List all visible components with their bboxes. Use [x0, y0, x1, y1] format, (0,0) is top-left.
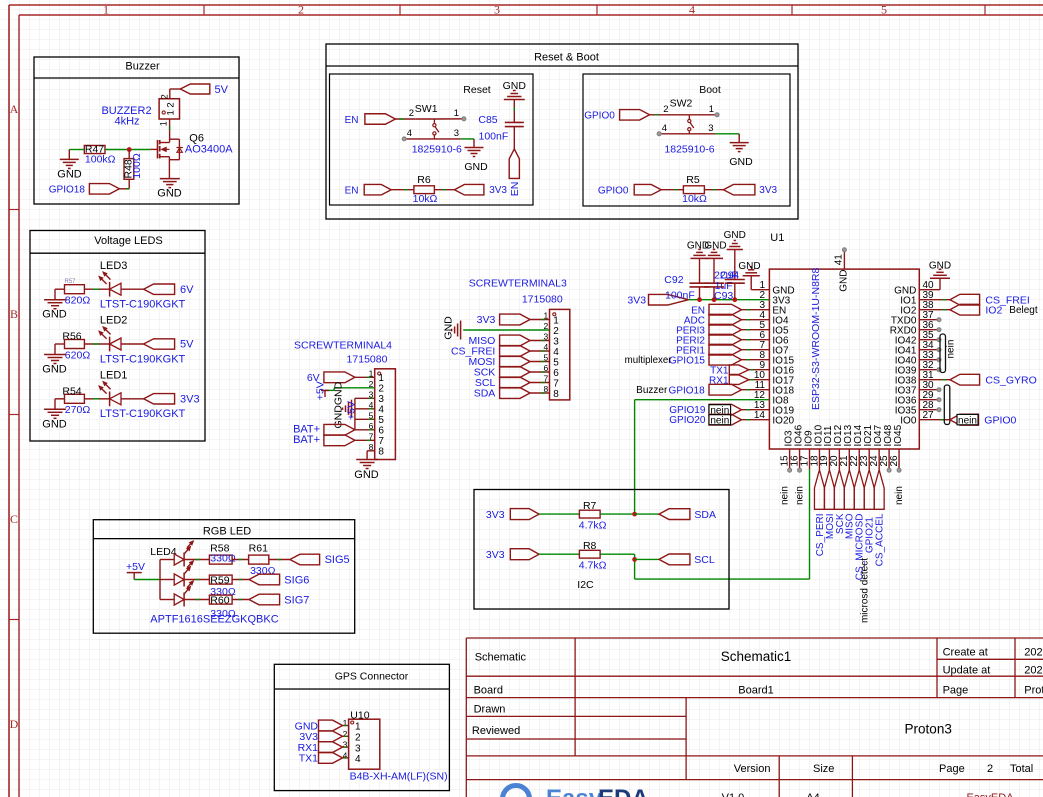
junction at C93: [712, 297, 717, 302]
buzzer BUZZER2: [101, 94, 179, 127]
connector SCREWTERMINAL3 1715080: [469, 278, 570, 400]
net flag PERI2 at U1 pin6: [676, 334, 741, 346]
svg-text:R54: R54: [62, 385, 81, 397]
svg-text:4.7kΩ: 4.7kΩ: [579, 560, 607, 572]
switch SW2 1825910-6: [661, 97, 717, 155]
svg-text:GND: GND: [704, 241, 726, 252]
svg-text:microsd detect: microsd detect: [860, 558, 871, 623]
svg-text:LTST-C190KGKT: LTST-C190KGKT: [100, 408, 186, 420]
svg-text:2: 2: [298, 3, 304, 17]
wire pin5: [530, 361, 550, 363]
svg-text:2: 2: [553, 326, 559, 337]
svg-text:3V3: 3V3: [486, 509, 505, 521]
wire R56 to LED2: [84, 343, 109, 345]
svg-text:3: 3: [343, 740, 348, 750]
svg-text:GND: GND: [839, 270, 850, 292]
svg-text:1: 1: [709, 104, 714, 115]
svg-text:nein: nein: [780, 486, 791, 505]
net flag GPIO20 nein at U1 pin14: [669, 414, 741, 426]
svg-text:Easy: Easy: [546, 785, 603, 797]
net flag SCL at SCREWTERMINAL3 pin7: [475, 377, 530, 389]
net flag PERI3 at U1 pin5: [676, 324, 741, 336]
svg-text:3: 3: [494, 3, 500, 17]
LED LED3 LTST-C190KGKT: [99, 260, 186, 311]
svg-text:EN: EN: [509, 182, 521, 197]
ground GND at SCREWTERMINAL3: [443, 316, 461, 340]
Reset and Boot section box: [326, 44, 798, 219]
U1 right pin names and numbers: [890, 280, 934, 426]
connector U10 B4B-XH-AM: [343, 709, 448, 782]
svg-text:Proto: Proto: [1024, 685, 1043, 697]
svg-text:Schematic1: Schematic1: [721, 649, 792, 664]
svg-text:Buzzer: Buzzer: [636, 385, 668, 396]
svg-text:AO3400A: AO3400A: [185, 144, 233, 156]
svg-text:GPIO0: GPIO0: [598, 185, 629, 196]
net flag GPIO0 at SW2: [584, 110, 649, 122]
net flag PERI1 at U1 pin7: [676, 344, 741, 356]
wires pins 35-32: [919, 340, 939, 370]
svg-text:nein: nein: [958, 415, 977, 426]
svg-text:2: 2: [343, 729, 348, 739]
svg-text:SW2: SW2: [670, 97, 693, 109]
svg-text:IO0: IO0: [900, 415, 917, 426]
power +5V symbol at SCREWTERMINAL4: [315, 381, 330, 400]
wire pin7: [742, 349, 770, 351]
net flag GPIO18 at U1 pin11: [669, 384, 742, 396]
net flag SDA at SCREWTERMINAL3 pin8: [474, 388, 530, 400]
net flag GPIO15 at U1 pin8: [669, 354, 742, 366]
svg-text:3V3: 3V3: [180, 394, 200, 406]
resistor R6 10k: [413, 174, 438, 205]
svg-text:1 2: 1 2: [166, 102, 177, 115]
svg-text:GND: GND: [729, 156, 753, 168]
resistor R47 100k: [84, 144, 115, 166]
wire junction to SCL flag: [635, 558, 659, 560]
wire U1 pin17 IO9 to SCL net: [809, 469, 811, 579]
svg-text:4.7kΩ: 4.7kΩ: [579, 519, 607, 531]
power flag 5V: [144, 339, 195, 351]
svg-text:2: 2: [355, 733, 361, 744]
svg-text:GPIO20: GPIO20: [669, 415, 706, 426]
svg-text:3: 3: [378, 394, 384, 405]
title block: [466, 638, 1043, 797]
resistor R7 4.7k: [579, 500, 607, 531]
svg-text:GPIO0: GPIO0: [584, 111, 615, 122]
power flag 3V3 at R7: [486, 509, 539, 521]
svg-text:SCREWTERMINAL4: SCREWTERMINAL4: [294, 340, 392, 352]
svg-text:EasyEDA: EasyEDA: [966, 792, 1014, 797]
wire pin3: [742, 309, 770, 311]
net flag SIG5: [290, 554, 350, 566]
pin end 37: [937, 318, 941, 322]
wire pin5: [742, 329, 770, 331]
svg-text:1825910-6: 1825910-6: [664, 144, 714, 156]
svg-text:R8: R8: [583, 540, 597, 552]
wire R6 to 3V3: [434, 189, 454, 191]
svg-text:2: 2: [409, 108, 414, 119]
svg-text:A: A: [10, 102, 19, 116]
svg-text:330Ω: 330Ω: [210, 608, 236, 620]
net flag MOSI at U1 pin19: [824, 470, 835, 539]
IC U1 ESP32-S3-WROOM-1U-N8R8: [769, 232, 919, 449]
svg-text:6V: 6V: [180, 284, 194, 296]
svg-text:3V3: 3V3: [627, 294, 646, 306]
svg-text:2: 2: [160, 94, 170, 99]
svg-text:8: 8: [553, 389, 559, 400]
wire LED4 G to R59: [184, 579, 209, 581]
wire pin1: [355, 376, 375, 378]
svg-text:Size: Size: [813, 763, 834, 775]
GPS Connector section box: [274, 664, 449, 790]
svg-text:2023: 2023: [1024, 665, 1043, 677]
net flag SIG6: [249, 574, 309, 586]
power flag 3V3 at R8: [486, 549, 539, 561]
svg-text:GND: GND: [443, 316, 455, 340]
svg-text:5: 5: [553, 357, 559, 368]
capacitor C92 100nF: [664, 258, 709, 301]
ground GND above C85: [503, 80, 527, 100]
frame row letters: [10, 102, 19, 731]
wire pin4: [742, 319, 770, 321]
svg-text:RGB LED: RGB LED: [203, 526, 251, 538]
net flag GPIO21 at U1 pin23: [864, 470, 875, 553]
svg-text:GPIO18: GPIO18: [669, 385, 706, 396]
capacitor C93 1uF: [704, 258, 733, 301]
svg-text:3: 3: [708, 123, 713, 134]
svg-text:I2C: I2C: [577, 579, 594, 591]
svg-text:Buzzer: Buzzer: [125, 60, 160, 72]
svg-text:5V: 5V: [215, 84, 229, 96]
svg-text:Reviewed: Reviewed: [472, 725, 520, 737]
svg-text:CS_GYRO: CS_GYRO: [985, 374, 1036, 386]
svg-text:GPIO0: GPIO0: [984, 414, 1016, 426]
net flag ADC at U1 pin4: [684, 314, 742, 326]
pin ends 15 16 25 26: [788, 468, 901, 472]
svg-text:2: 2: [378, 384, 384, 395]
svg-text:Update at: Update at: [943, 665, 991, 677]
svg-text:1825910-6: 1825910-6: [412, 144, 462, 156]
wire pin4: [530, 350, 550, 352]
junction at R48 top: [127, 147, 132, 152]
svg-text:GPS Connector: GPS Connector: [335, 671, 409, 683]
net flag EN at SW1: [345, 114, 396, 126]
resistor R61 330: [249, 542, 276, 577]
ground GND at U1 pin40: [919, 261, 951, 290]
net flag GPIO0 at R5: [598, 184, 661, 196]
net flag 3V3 at SCREWTERMINAL3 pin1: [477, 314, 530, 326]
labels nein for pins 15 16 26: [780, 486, 905, 505]
wire R58 to R61: [232, 559, 249, 561]
svg-text:100nF: 100nF: [479, 130, 509, 142]
resistor R60 330: [209, 594, 235, 620]
wire pin3: [530, 340, 550, 342]
svg-text:nein: nein: [894, 486, 905, 505]
pin end SW2 pin1: [715, 113, 719, 117]
Voltage LEDS section box: [30, 231, 205, 442]
svg-text:R61: R61: [249, 542, 268, 554]
net flag 3V3 at U10 pin2: [299, 731, 348, 743]
wire 3V3 to R8: [539, 553, 579, 555]
ground GND at U1 pin1: [738, 261, 760, 276]
EasyEDA logo: [503, 785, 649, 797]
svg-text:GND: GND: [42, 364, 67, 376]
I2C section box: [474, 490, 729, 610]
svg-text:LED1: LED1: [100, 369, 128, 381]
net flag IO2 at U1 pin38: [919, 304, 1038, 316]
svg-text:41: 41: [833, 254, 844, 266]
net flag CS_MICROSD at U1 pin22: [854, 470, 865, 580]
pin end SW2 pin4: [657, 132, 661, 136]
ground GND above C93: [704, 241, 726, 259]
svg-text:100Ω: 100Ω: [131, 153, 143, 179]
ground GND at SCREWTERMINAL4 pin8: [354, 460, 379, 481]
svg-text:1: 1: [159, 121, 169, 126]
svg-text:Board: Board: [474, 685, 503, 697]
svg-text:Total: Total: [1010, 763, 1033, 775]
net flag CS_ACCEL at U1 pin24: [874, 470, 885, 567]
svg-text:ESP32-S3-WROOM-1U-N8R8: ESP32-S3-WROOM-1U-N8R8: [810, 267, 822, 410]
U1 pin 41 GND top: [833, 251, 849, 292]
svg-text:GND: GND: [503, 80, 527, 92]
pin end 41: [842, 248, 846, 252]
wire R61 to SIG5: [269, 559, 290, 561]
svg-text:1: 1: [103, 3, 109, 17]
svg-text:5V: 5V: [180, 339, 194, 351]
pin end 36: [937, 328, 941, 332]
svg-text:GND: GND: [42, 309, 67, 321]
wire buzzer to Q6 drain: [169, 119, 171, 143]
wire +5V to LED4: [134, 579, 160, 581]
junction at C92: [697, 297, 702, 302]
svg-text:LTST-C190KGKT: LTST-C190KGKT: [100, 299, 186, 311]
ground GND above C94: [724, 230, 746, 250]
title block texts: [472, 647, 1043, 797]
U1 left pin names and numbers: [754, 280, 795, 426]
net flag MOSI at SCREWTERMINAL3 pin5: [468, 356, 530, 368]
wires pins 37 36 unconnected: [919, 320, 939, 330]
svg-text:1: 1: [343, 718, 348, 728]
svg-text:B: B: [10, 307, 18, 321]
wire pin8 to GND: [367, 450, 375, 452]
transistor Q6 AO3400A: [150, 132, 233, 178]
wire LED1 to 3V3: [121, 398, 144, 400]
wire R48 to GPIO18 flag: [128, 179, 130, 189]
net flag GPIO18: [49, 184, 120, 196]
wire junction to SDA flag: [635, 513, 659, 515]
svg-text:2: 2: [663, 104, 668, 115]
net flag GPIO0 nein at U1 pin27: [950, 414, 1017, 426]
net flag SCK at U1 pin20: [834, 470, 845, 534]
svg-text:GND: GND: [57, 168, 82, 180]
wire SW2 pin3 to GND: [715, 133, 739, 135]
Boot sub-box: [583, 74, 790, 206]
svg-text:3: 3: [553, 336, 559, 347]
net flag CS_GYRO at U1 pin31: [919, 374, 1036, 386]
power flag 3V3 at U1 pin2: [627, 294, 688, 306]
svg-text:IO45: IO45: [893, 424, 904, 446]
wire R8 to SCL junction: [600, 553, 635, 555]
svg-text:C92: C92: [664, 274, 683, 286]
svg-text:10kΩ: 10kΩ: [413, 193, 438, 205]
svg-text:C: C: [10, 512, 18, 526]
power flag 3V3 at R6: [454, 184, 507, 196]
svg-text:nein: nein: [946, 340, 957, 359]
svg-text:Reset: Reset: [463, 84, 491, 96]
ground GND at R54: [42, 399, 67, 431]
svg-text:3V3: 3V3: [486, 549, 505, 561]
svg-text:3V3: 3V3: [759, 185, 777, 196]
wire pin10: [749, 379, 770, 381]
svg-text:C85: C85: [478, 114, 497, 126]
svg-text:GND: GND: [464, 161, 488, 173]
svg-text:V1.0: V1.0: [722, 792, 745, 797]
frame column numbers: [103, 3, 887, 17]
svg-text:SW1: SW1: [415, 103, 438, 115]
pin end SW1 pin1: [462, 117, 466, 121]
svg-text:820Ω: 820Ω: [65, 295, 91, 307]
svg-text:GND: GND: [929, 261, 951, 272]
junction SDA: [632, 512, 637, 517]
wire R54 to LED1: [84, 398, 109, 400]
svg-text:6: 6: [553, 368, 559, 379]
svg-text:Voltage LEDS: Voltage LEDS: [94, 235, 163, 247]
svg-text:1715080: 1715080: [522, 293, 563, 305]
svg-text:SCL: SCL: [694, 554, 715, 566]
bracket nein pins 35-32: [940, 334, 957, 373]
svg-text:D: D: [10, 717, 19, 731]
net flag SIG7: [249, 594, 309, 606]
svg-text:Q6: Q6: [189, 132, 204, 144]
svg-text:GND: GND: [354, 469, 379, 481]
wire GPIO0 to R5: [661, 189, 683, 191]
svg-text:SIG5: SIG5: [325, 554, 350, 566]
svg-text:C93: C93: [714, 290, 733, 302]
ground GND at R56: [42, 344, 67, 376]
svg-text:330Ω: 330Ω: [210, 552, 236, 564]
net flag TX1 at U10 pin4: [299, 753, 349, 765]
net flag SDA: [659, 509, 716, 521]
svg-text:4: 4: [378, 405, 384, 416]
svg-text:3: 3: [355, 743, 361, 754]
svg-text:10kΩ: 10kΩ: [682, 193, 707, 205]
wire EN to R6: [391, 189, 414, 191]
svg-text:R7: R7: [583, 500, 597, 512]
net flag TX1 at U1 pin9: [710, 365, 749, 376]
wire U1 pin1 to GND: [751, 289, 769, 291]
svg-text:LED2: LED2: [100, 315, 128, 327]
svg-text:3V3: 3V3: [477, 314, 496, 326]
svg-text:3V3: 3V3: [489, 185, 507, 196]
svg-text:TX1: TX1: [299, 753, 318, 765]
svg-text:LED4: LED4: [150, 546, 176, 558]
svg-text:IO2: IO2: [985, 304, 1002, 316]
svg-text:7: 7: [553, 378, 559, 389]
svg-text:EDA: EDA: [598, 785, 649, 797]
svg-text:nein: nein: [795, 486, 806, 505]
wire pin14: [742, 419, 770, 421]
power flag 3V3: [144, 394, 200, 406]
svg-text:+5V: +5V: [126, 561, 145, 573]
svg-text:SDA: SDA: [694, 509, 716, 521]
svg-text:+5V: +5V: [315, 381, 327, 400]
wire pin8: [742, 359, 770, 361]
wire pin8: [530, 392, 550, 394]
pin end SW1 pin4: [402, 137, 406, 141]
svg-text:Belegt: Belegt: [1009, 305, 1038, 316]
wire pin6: [742, 339, 770, 341]
power flag 5V: [180, 84, 228, 96]
net flag EN at U1 pin3: [691, 304, 741, 316]
net flag CS_FREI at U1 pin39: [919, 294, 1029, 306]
svg-text:GND: GND: [157, 187, 182, 199]
junction SCL: [632, 557, 637, 562]
net flag BAT+ at pin7: [293, 434, 375, 446]
svg-text:GNDGND: GNDGND: [333, 381, 345, 428]
svg-text:4: 4: [407, 128, 412, 139]
svg-text:4: 4: [662, 123, 667, 134]
net flag GND at U10 pin1: [295, 720, 349, 732]
svg-text:GPIO15: GPIO15: [669, 355, 706, 366]
svg-text:8: 8: [378, 447, 384, 458]
Reset sub-box: [330, 74, 534, 205]
wire pin1: [530, 319, 550, 321]
svg-text:GND: GND: [42, 418, 67, 430]
LED LED4 APTF1616 common anode: [150, 541, 278, 626]
capacitor C94 22uF: [714, 250, 745, 300]
net flag SCK at SCREWTERMINAL3 pin6: [474, 367, 530, 379]
switch SW1 1825910-6: [406, 103, 464, 156]
svg-text:SCREWTERMINAL3: SCREWTERMINAL3: [469, 278, 567, 290]
net flag BAT+ at pin6: [293, 423, 355, 435]
wire 3V3 to U1 pin2: [689, 299, 770, 301]
resistor R8 4.7k: [579, 540, 607, 571]
svg-text:Proton3: Proton3: [905, 722, 952, 737]
wire LED2 to 5V: [121, 343, 144, 345]
svg-text:IO20: IO20: [772, 415, 794, 426]
net flag RX1 at U10 pin3: [298, 742, 349, 754]
wire pin6: [530, 371, 550, 373]
svg-text:SIG7: SIG7: [284, 594, 309, 606]
svg-text:100kΩ: 100kΩ: [85, 153, 116, 165]
svg-text:U1: U1: [770, 232, 784, 244]
svg-text:R60: R60: [210, 594, 229, 606]
wire R47 to Q6 gate: [105, 149, 150, 151]
svg-text:B4B-XH-AM(LF)(SN): B4B-XH-AM(LF)(SN): [350, 771, 448, 783]
svg-text:+5V: +5V: [345, 401, 357, 420]
net flag MISO at SCREWTERMINAL3 pin3: [468, 335, 530, 347]
svg-text:A4: A4: [806, 792, 819, 797]
junction at C94: [732, 297, 737, 302]
wire 3V3 to R7: [539, 513, 579, 515]
resistor R59 330: [209, 574, 235, 598]
wire R59 to SIG6: [232, 579, 249, 581]
svg-text:3: 3: [454, 128, 459, 139]
net flag CS_FREI at SCREWTERMINAL3 pin4: [451, 346, 530, 358]
Buzzer section box: [34, 57, 239, 204]
svg-text:CS_ACCEL: CS_ACCEL: [875, 513, 886, 566]
svg-text:GND: GND: [738, 261, 760, 272]
capacitor C85 100nF: [478, 100, 523, 149]
U1 bottom pin stubs: [790, 449, 899, 469]
svg-text:5: 5: [378, 415, 384, 426]
net flag MISO at U1 pin21: [844, 470, 855, 539]
svg-text:2: 2: [987, 763, 993, 775]
ground GND at R47: [57, 150, 82, 181]
wire pin 27: [919, 419, 950, 421]
wire LED3 to 6V: [121, 288, 144, 290]
svg-text:R5: R5: [686, 174, 700, 186]
wire pin9: [749, 369, 770, 371]
